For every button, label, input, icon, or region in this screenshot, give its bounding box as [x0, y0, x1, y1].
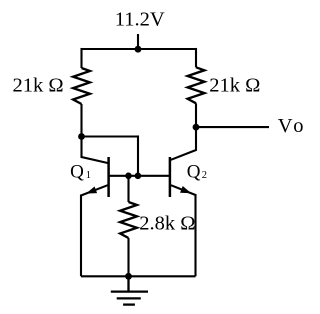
- node output junction dot: [193, 124, 200, 131]
- wire R2 top lead: [195, 48, 197, 67]
- wire R3 top lead: [127, 176, 129, 202]
- wire feedback vertical to base node: [137, 135, 139, 175]
- node supply junction dot: [135, 46, 142, 53]
- node ground junction dot: [125, 273, 132, 280]
- svg-text:Q2: Q2: [187, 161, 207, 182]
- wire Q1 emitter vertical: [80, 195, 82, 277]
- wire base rail: [109, 175, 170, 177]
- wire node A horizontal to feedback: [82, 135, 139, 137]
- wire bottom rail: [81, 275, 196, 277]
- svg-text:Q1: Q1: [70, 161, 91, 182]
- resistor R1 zigzag: [73, 68, 90, 104]
- wire R2 bottom lead: [195, 103, 197, 127]
- wire R3 bottom lead: [127, 238, 129, 276]
- wire Q2 collector lead: [171, 127, 196, 160]
- wire R1 bottom lead: [80, 104, 82, 137]
- junction dot base / R3: [125, 173, 132, 180]
- wire Q2 emitter vertical: [194, 194, 196, 276]
- resistor R2 zigzag: [188, 67, 205, 103]
- transistor Q2: [170, 157, 196, 197]
- node A junction dot (R1 / Q1 collector / feedback): [78, 133, 85, 140]
- svg-text:21k Ω: 21k Ω: [209, 75, 260, 97]
- junction dot base / feedback: [135, 173, 142, 180]
- resistor R3 zigzag: [120, 202, 137, 238]
- svg-text:2.8k Ω: 2.8k Ω: [139, 213, 195, 235]
- svg-text:21k Ω: 21k Ω: [13, 75, 64, 97]
- wire supply stub: [137, 34, 139, 49]
- svg-text:Vo: Vo: [278, 115, 304, 137]
- ground: [111, 276, 148, 304]
- transistor Q1: [81, 157, 109, 197]
- wire R1 top lead: [80, 48, 82, 68]
- wire Q1 collector lead: [82, 137, 108, 164]
- wire output node to Vo: [196, 126, 269, 128]
- wire top rail: [82, 48, 197, 50]
- svg-text:11.2V: 11.2V: [115, 8, 165, 30]
